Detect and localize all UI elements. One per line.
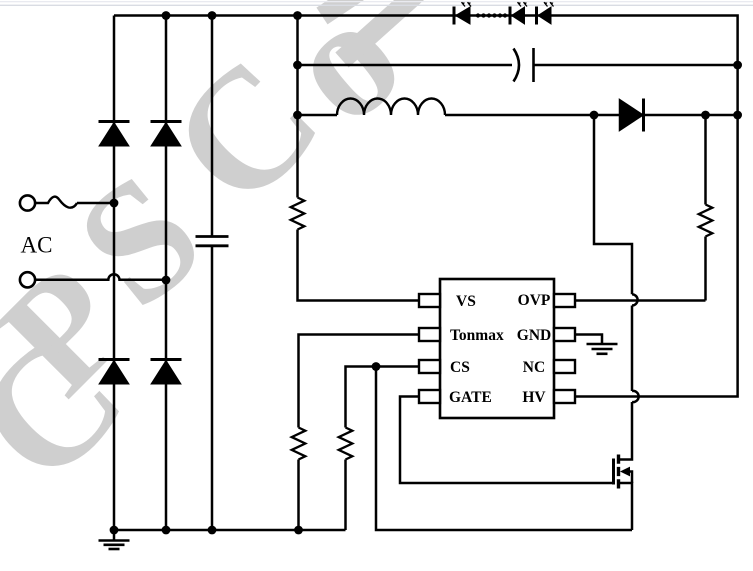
IC U1 body [440, 279, 554, 418]
junction node gnd-x298 [294, 526, 303, 535]
junction node switch [590, 111, 599, 120]
bridge diode D4 [151, 360, 182, 384]
watermark letter P bottom-left [0, 232, 160, 427]
junction node ovp-res-top [701, 111, 710, 120]
wire AC top lead [77, 202, 114, 205]
svg-text:GATE: GATE [449, 389, 492, 406]
watermark fragment top stripe 2 [342, 0, 418, 60]
svg-text:HV: HV [522, 389, 546, 406]
wire bridge right column [165, 16, 168, 531]
resistor R2 (OVP) [699, 205, 713, 237]
junction node AC bottom [162, 276, 171, 285]
wire switch node: diode anode down, jog, drain column with hops [594, 115, 632, 460]
pin GND box [554, 328, 575, 341]
wire ground stub main [113, 530, 116, 540]
LED D7 [510, 2, 527, 24]
resistor R3 (Tonmax) [292, 428, 306, 460]
junction node CS [372, 362, 381, 371]
pin CS box [419, 360, 440, 373]
wire bridge left column [113, 16, 116, 531]
wire input-cap column lower [211, 246, 214, 530]
svg-text:NC: NC [523, 359, 545, 376]
junction node row2-right [733, 61, 742, 70]
AC terminal top [20, 195, 35, 210]
wire GND pin to ground symbol [575, 335, 602, 344]
AC terminal bottom [20, 272, 35, 287]
resistor R1 (VS divider) [291, 198, 305, 230]
wire row3 inductor to diode [445, 114, 620, 117]
watermark fragment top stripe 1 [322, 0, 382, 16]
pin OVP box [554, 294, 575, 307]
svg-text:GND: GND [517, 327, 551, 344]
wire row3 left to inductor [298, 114, 338, 117]
bridge diode D1 [99, 122, 130, 146]
top border line 2 [0, 5, 753, 6]
wire input-cap column upper [211, 16, 214, 237]
svg-text:AC: AC [21, 233, 53, 258]
mosfet Q1 [614, 455, 631, 489]
svg-text:OVP: OVP [518, 292, 551, 309]
ground symbol main [99, 541, 130, 550]
wire CS branch to source bottom loop [376, 367, 632, 531]
output capacitor C2 curved plate [514, 49, 520, 82]
bridge diode D2 [151, 122, 182, 146]
wire mosfet source to bottom loop [619, 483, 632, 530]
junction node row1-x166 [162, 11, 171, 20]
wire hop on drain column over OVP wire [632, 294, 638, 305]
wire ground bottom rail left [114, 529, 346, 532]
junction node AC top [110, 199, 119, 208]
pin NC box [554, 360, 575, 373]
wire VS column (top rails to VS resistor and VS pin) [298, 16, 420, 301]
LED D8 [537, 2, 554, 24]
svg-text:Tonmax: Tonmax [450, 327, 504, 344]
output capacitor C2 straight plate [532, 48, 535, 82]
watermark text [43, 0, 435, 343]
resistor R4 (CS sense) [339, 428, 353, 460]
wire row3 diode to right rail [644, 114, 738, 117]
junction node row1-x297 [293, 11, 302, 20]
ground symbol IC GND [587, 344, 618, 354]
watermark letter C bottom-left hook [0, 299, 158, 519]
bridge diode D3 [99, 360, 130, 384]
fuse F1 AC top squiggle [36, 197, 77, 208]
svg-text:CS: CS [450, 359, 470, 376]
junction node row2-x297 [293, 61, 302, 70]
wire row2 left segment [298, 64, 513, 67]
wire OVP to resistor bottom [575, 299, 706, 302]
LED series dots [476, 13, 507, 17]
LED D6 [454, 2, 471, 24]
junction node row3-x297 [293, 111, 302, 120]
top border line 1 [0, 1, 753, 2]
pin Tonmax box [419, 328, 440, 341]
inductor L1 [337, 99, 445, 116]
wire top rail + right rail + HV wire [114, 16, 738, 397]
wire CS to resistor [346, 367, 420, 531]
wire row2 right segment [534, 64, 738, 67]
freewheel diode D5 [620, 99, 644, 132]
junction node gnd-x212 [208, 526, 217, 535]
pin HV box [554, 390, 575, 403]
wire mosfet body line [627, 472, 632, 484]
junction node row3-right [733, 111, 742, 120]
junction node gnd-x166 [162, 526, 171, 535]
wire OVP resistor column [704, 115, 707, 301]
junction node row1-x212 [208, 11, 217, 20]
wire hop on drain column over HV wire [632, 391, 639, 402]
input capacitor C1 [196, 237, 229, 246]
wire AC bottom lead with hop [35, 274, 166, 280]
pin VS box [419, 294, 440, 307]
wire GATE loop [400, 397, 613, 484]
wire Tonmax to resistor to ground rail [299, 335, 420, 531]
junction node gnd-x114 [110, 526, 119, 535]
pin GATE box [419, 390, 440, 403]
svg-text:VS: VS [456, 293, 476, 310]
